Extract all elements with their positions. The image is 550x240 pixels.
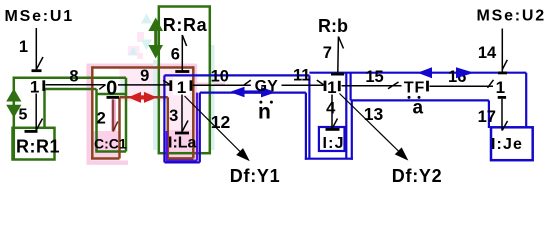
bond 6 R:Ra to 1b bbox=[175, 35, 189, 72]
ghost pale arrow bbox=[128, 46, 140, 56]
blue loop outline I:J..TF..I:Je bbox=[309, 73, 526, 159]
pale cyan band right of tall green box bbox=[211, 45, 215, 150]
svg-text:3: 3 bbox=[169, 107, 178, 125]
pink fill behind C:C1 bbox=[92, 131, 119, 159]
svg-text:I:J: I:J bbox=[323, 135, 345, 152]
bond 4 1c to I:J bbox=[326, 95, 340, 130]
bond 8 1a to 0 bbox=[44, 80, 106, 91]
bond 12 signal to Df:Y1 bbox=[185, 96, 249, 160]
svg-text:8: 8 bbox=[69, 68, 78, 86]
pink fill behind I:La bbox=[167, 130, 199, 161]
bond 3 1b to I:La bbox=[175, 95, 189, 134]
svg-text:1: 1 bbox=[327, 78, 336, 97]
svg-text:17: 17 bbox=[478, 108, 496, 126]
bond 2 0 to C:C1 bbox=[107, 97, 120, 131]
svg-text:Df:Y2: Df:Y2 bbox=[392, 166, 443, 186]
green double arrow left edge bbox=[6, 89, 21, 118]
green box R:R1 bbox=[13, 128, 55, 160]
svg-text:R:b: R:b bbox=[318, 16, 348, 36]
blue loop outline I:La..GY..I:J bbox=[164, 75, 309, 162]
svg-text:GY: GY bbox=[255, 78, 278, 95]
svg-text:Df:Y1: Df:Y1 bbox=[230, 166, 281, 186]
svg-text:4: 4 bbox=[326, 100, 336, 118]
svg-text:I:La: I:La bbox=[168, 135, 197, 152]
svg-text:12: 12 bbox=[211, 112, 231, 132]
bond 11 GY to 1c bbox=[282, 80, 326, 91]
svg-text:a: a bbox=[413, 98, 424, 119]
pink fill corridor between C:C1 and I:La bbox=[120, 69, 194, 96]
bond 14 MSe:U2 to 1d bbox=[498, 29, 507, 73]
pink loop path C:C1..I:La outer corridor bbox=[87, 64, 226, 163]
bond 16 TF to 1d bbox=[428, 80, 494, 92]
bond 7 R:b to 1c bbox=[331, 37, 344, 75]
svg-text:1: 1 bbox=[177, 78, 186, 97]
ghost pale arrows near R:Ra bbox=[141, 14, 152, 24]
svg-text:5: 5 bbox=[19, 106, 28, 123]
svg-text:7: 7 bbox=[323, 44, 332, 62]
pink fill right corridor above I:La bbox=[168, 96, 194, 132]
blue inner box I:J bbox=[319, 127, 345, 151]
bond 17 1d to I:Je bbox=[498, 97, 508, 130]
blue outer box I:J sides and bottom bbox=[305, 93, 353, 160]
svg-text:14: 14 bbox=[478, 44, 497, 62]
svg-text:I:Je: I:Je bbox=[491, 136, 523, 153]
pale cyan band left of tall green box bbox=[153, 60, 157, 150]
svg-text:10: 10 bbox=[211, 68, 229, 86]
svg-text:1: 1 bbox=[496, 78, 505, 97]
svg-text:13: 13 bbox=[364, 104, 384, 124]
maroon loop outline C:C1..I:La bbox=[91, 66, 193, 158]
green box R:Ra tall bbox=[159, 7, 210, 154]
purple loop segment around I:La bbox=[166, 93, 197, 161]
svg-text:TF: TF bbox=[404, 80, 425, 97]
green loop outline R:R1..C:C1 corridor bbox=[14, 77, 126, 160]
svg-text:n: n bbox=[258, 101, 271, 124]
svg-text:15: 15 bbox=[365, 68, 383, 86]
svg-text:11: 11 bbox=[293, 67, 310, 85]
bond 15 1c to TF bbox=[339, 81, 401, 91]
bond 13 signal to Df:Y2 bbox=[340, 94, 408, 160]
svg-text:2: 2 bbox=[97, 109, 106, 127]
green double arrow R:Ra edge bbox=[148, 18, 163, 59]
svg-text:1: 1 bbox=[30, 78, 39, 97]
bond 5 1a to R:R1 bbox=[25, 94, 43, 132]
svg-text:0: 0 bbox=[106, 77, 117, 99]
svg-text:R:Ra: R:Ra bbox=[163, 15, 208, 35]
svg-text:R:R1: R:R1 bbox=[16, 136, 60, 156]
svg-text:MSe:U2: MSe:U2 bbox=[477, 8, 546, 25]
svg-text:C:C1: C:C1 bbox=[94, 136, 127, 152]
blue double arrow bond16 bbox=[418, 67, 475, 78]
blue box I:Je bbox=[491, 127, 533, 160]
bond 10 1b to GY bbox=[191, 80, 251, 91]
bond 9 0 to 1b bbox=[118, 80, 171, 91]
svg-text:MSe:U1: MSe:U1 bbox=[5, 8, 74, 25]
svg-text:6: 6 bbox=[171, 46, 180, 64]
red double arrow bond9 bbox=[128, 92, 157, 103]
blue double arrow under GY bbox=[230, 87, 277, 98]
svg-text:1: 1 bbox=[19, 38, 28, 56]
bond 1 MSe:U1 to 1a bbox=[32, 28, 44, 71]
svg-text:9: 9 bbox=[140, 67, 149, 85]
white patch behind junction 1b bbox=[173, 77, 190, 95]
